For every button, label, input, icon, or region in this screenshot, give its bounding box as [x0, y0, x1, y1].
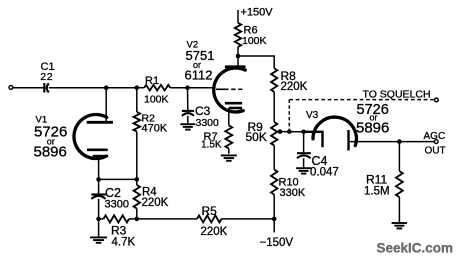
resistor R9: [271, 122, 277, 146]
svg-text:0.047: 0.047: [310, 167, 339, 179]
wire node A to V2 plate: [237, 56, 239, 65]
svg-text:100K: 100K: [242, 35, 267, 47]
wire +150V to R6: [237, 10, 239, 23]
node M junction: [301, 130, 306, 135]
wire node D to V2 grid: [188, 87, 214, 89]
wire R6 to node A: [237, 47, 239, 56]
svg-text:6112: 6112: [185, 67, 213, 82]
wire node C to R1: [137, 87, 144, 89]
V2 grid dashed line: [216, 88, 242, 90]
wire R10 to node J: [273, 195, 275, 219]
node H junction: [135, 217, 140, 222]
wire V1 cathode down: [98, 156, 100, 179]
wire R7 to ground: [228, 149, 230, 154]
svg-text:R1: R1: [145, 75, 159, 87]
capacitor C3: [182, 111, 194, 116]
svg-text:50K: 50K: [246, 130, 267, 144]
wire node M to C4: [303, 132, 305, 153]
wire node F to R4: [136, 179, 138, 185]
wire node H to R5: [137, 218, 197, 220]
wire node D to C3: [187, 88, 189, 110]
wire node A to R8: [238, 56, 274, 68]
wire node C to R2: [136, 88, 138, 112]
node A junction: [236, 54, 241, 59]
dashed wire to squelch horizontal: [289, 99, 434, 101]
wire V3 cathode to node N: [349, 141, 400, 143]
tube V1 envelope: [74, 115, 107, 159]
wire node G to R3: [99, 218, 104, 220]
svg-text:470K: 470K: [142, 123, 168, 135]
wire R9 to R10: [273, 146, 275, 170]
wire R9 tap: [277, 131, 303, 133]
resistor R8: [271, 68, 277, 92]
node D junction: [185, 85, 190, 90]
svg-text:220K: 220K: [142, 197, 169, 209]
svg-text:1.5K: 1.5K: [201, 140, 222, 151]
svg-text:220K: 220K: [201, 226, 228, 238]
capacitor C1: [44, 83, 49, 93]
resistor R3: [104, 215, 130, 222]
svg-text:R3: R3: [111, 224, 127, 238]
resistor R5: [197, 215, 222, 222]
svg-text:3300: 3300: [105, 199, 129, 211]
resistor R4: [134, 185, 140, 209]
svg-text:AGC: AGC: [424, 131, 446, 142]
node K junction: [278, 129, 283, 134]
node F junction: [135, 177, 140, 182]
node N junction: [397, 139, 402, 144]
wire node G to ground: [98, 219, 100, 237]
resistor R2: [134, 112, 141, 132]
wire R3 to node H: [129, 218, 137, 220]
V2 plate: [225, 65, 246, 68]
wire R2 to node F: [136, 132, 138, 180]
svg-text:SeekIC.com: SeekIC.com: [377, 241, 454, 256]
ground below C2: [90, 237, 107, 242]
wire C1 to node B: [49, 87, 106, 89]
svg-text:5896: 5896: [34, 144, 67, 161]
svg-text:R5: R5: [202, 204, 218, 218]
svg-text:TO SQUELCH: TO SQUELCH: [363, 89, 431, 101]
svg-text:220K: 220K: [281, 81, 308, 93]
AGC out terminal: [434, 140, 438, 144]
V1 plate: [87, 121, 113, 124]
resistor R7: [225, 126, 232, 149]
svg-text:100K: 100K: [144, 94, 169, 106]
svg-text:3300: 3300: [196, 117, 220, 129]
svg-text:C3: C3: [195, 104, 211, 118]
svg-text:OUT: OUT: [425, 146, 446, 157]
resistor R1: [144, 85, 170, 91]
wire C2 to node G: [98, 199, 100, 219]
wire node B to V1 plate: [105, 88, 107, 122]
resistor R6: [235, 23, 241, 47]
svg-text:4.7K: 4.7K: [112, 237, 136, 249]
svg-text:+150V: +150V: [241, 7, 274, 19]
dashed wire to squelch vertical: [288, 100, 290, 132]
tube V2 envelope: [214, 68, 246, 112]
tube V3 envelope: [313, 117, 356, 146]
squelch terminal: [435, 98, 439, 102]
V1 cathode: [87, 150, 108, 156]
svg-text:330K: 330K: [280, 187, 306, 199]
V3 plate: [304, 132, 323, 147]
svg-text:5896: 5896: [356, 119, 389, 136]
node G junction: [96, 217, 101, 222]
wire R11 to ground: [398, 197, 400, 222]
wire node E to node F: [99, 178, 137, 180]
ground below R11: [392, 223, 408, 228]
svg-text:V3: V3: [306, 110, 319, 121]
wire R8 to R9: [273, 92, 275, 122]
node L junction: [287, 129, 292, 134]
wire R5 to node J: [222, 218, 275, 220]
wire V2 cathode to R7: [228, 108, 230, 126]
capacitor C2: [91, 195, 105, 199]
wire input to C1: [13, 87, 45, 89]
svg-text:R11: R11: [366, 173, 387, 187]
wire node N to R11: [398, 142, 400, 172]
wire R1 to node D: [170, 87, 187, 89]
ground below C3: [180, 124, 195, 129]
wire node E to C2: [98, 179, 100, 194]
wire node N to AGC out: [399, 141, 433, 143]
wire node J to -150V: [273, 219, 275, 233]
node J junction: [272, 217, 277, 222]
svg-text:1.5M: 1.5M: [364, 185, 390, 197]
resistor R11: [396, 171, 403, 197]
input terminal: [9, 86, 13, 90]
svg-text:22: 22: [40, 71, 53, 83]
svg-text:−150V: −150V: [260, 237, 294, 249]
wire C3 to ground: [187, 116, 189, 124]
ground below C4: [296, 168, 311, 173]
node E junction: [96, 177, 101, 182]
wire node B to node C: [106, 87, 137, 89]
V2 cathode: [225, 103, 242, 108]
wire C4 to ground: [303, 158, 305, 167]
wire R4 to node H: [136, 209, 138, 219]
V3 cathode: [347, 130, 349, 151]
resistor R10: [271, 170, 277, 195]
ground below R7: [221, 155, 237, 160]
node C junction: [135, 85, 140, 90]
capacitor C4: [297, 153, 311, 158]
node B junction: [104, 85, 109, 90]
